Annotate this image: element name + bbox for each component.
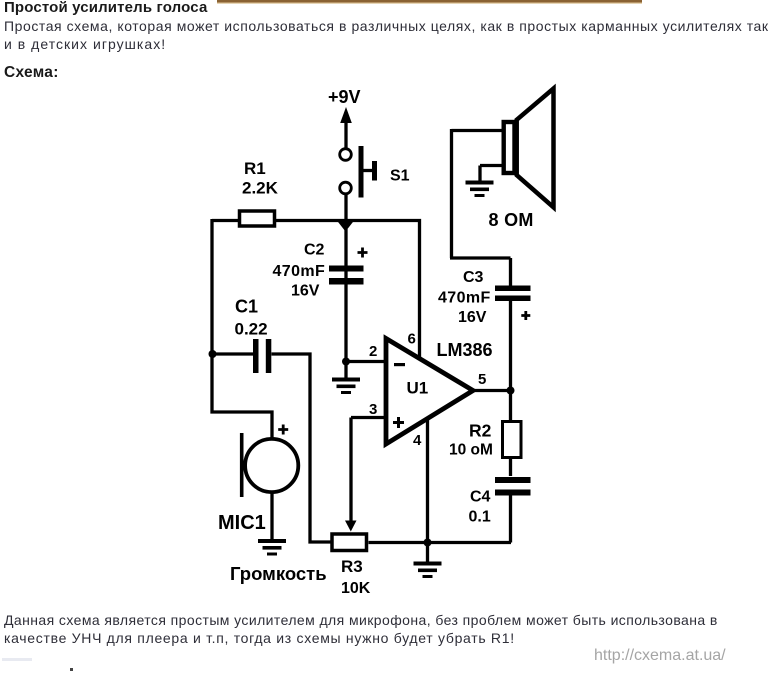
svg-text:Громкость: Громкость	[230, 563, 327, 584]
svg-text:470mF: 470mF	[438, 290, 491, 307]
svg-text:R3: R3	[341, 557, 363, 576]
svg-text:0.22: 0.22	[235, 320, 268, 339]
svg-text:C3: C3	[463, 269, 484, 286]
svg-text:16V: 16V	[291, 283, 320, 300]
svg-text:470mF: 470mF	[273, 263, 326, 280]
svg-text:16V: 16V	[458, 309, 487, 326]
svg-text:3: 3	[369, 401, 377, 418]
svg-text:MIC1: MIC1	[218, 512, 266, 534]
svg-text:+9V: +9V	[328, 87, 361, 107]
svg-text:R2: R2	[469, 421, 492, 441]
svg-text:U1: U1	[407, 379, 429, 398]
svg-text:S1: S1	[390, 168, 410, 185]
svg-text:C2: C2	[304, 242, 325, 259]
svg-text:R1: R1	[244, 159, 266, 178]
svg-text:4: 4	[413, 432, 422, 449]
svg-text:10K: 10K	[341, 580, 371, 597]
svg-text:C4: C4	[470, 489, 491, 506]
svg-text:C1: C1	[235, 297, 258, 317]
svg-text:2: 2	[369, 343, 377, 360]
svg-text:10 оМ: 10 оМ	[449, 442, 493, 459]
svg-text:8 ОМ: 8 ОМ	[489, 210, 534, 230]
svg-text:5: 5	[478, 371, 486, 388]
svg-text:0.1: 0.1	[469, 509, 491, 526]
svg-text:2.2K: 2.2K	[242, 179, 279, 198]
svg-text:6: 6	[408, 331, 416, 348]
svg-text:LM386: LM386	[437, 340, 493, 360]
